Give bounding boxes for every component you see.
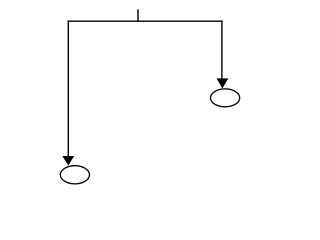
wire: right vertical edge <box>221 21 223 80</box>
wire: left vertical edge <box>67 21 69 158</box>
node: right ellipse <box>211 89 240 107</box>
node: left ellipse <box>60 166 89 184</box>
wire: horizontal branch bar <box>68 20 223 22</box>
arrowhead: left edge <box>62 156 74 166</box>
wire: stub from parent node above (cropped at top) <box>137 9 139 21</box>
arrowhead: right edge <box>217 78 229 88</box>
